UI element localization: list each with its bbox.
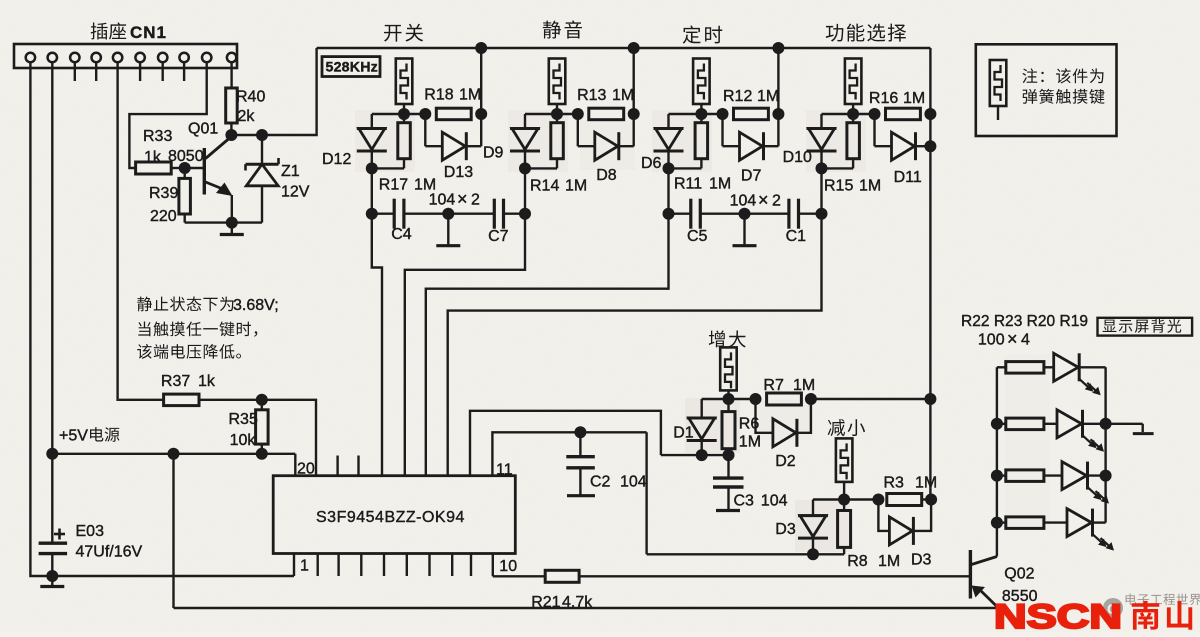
wire +5V to bottom rail <box>172 454 174 608</box>
wire sense timer to pin14 <box>426 214 669 476</box>
wire emitter ground link <box>185 217 262 229</box>
label C5 <box>687 228 708 245</box>
wire sense switch to pin16 <box>372 214 382 476</box>
svg-text:×: × <box>758 190 769 210</box>
wire LED right bus <box>1100 367 1112 522</box>
capacitor C7 <box>494 199 503 229</box>
connector CN1 <box>14 44 237 68</box>
wire LED left bus <box>991 367 1003 556</box>
label D3b <box>911 552 932 569</box>
diode D2 loop <box>756 399 811 447</box>
label pin1 <box>300 558 309 575</box>
label R7 1M <box>763 377 815 394</box>
label D11 <box>894 169 922 186</box>
label R12 1M <box>723 88 779 105</box>
svg-text:Q01: Q01 <box>188 121 218 138</box>
note key symbol <box>990 60 1007 120</box>
label R39 220 <box>149 185 178 225</box>
watermark logo circle <box>1103 598 1123 618</box>
svg-text:2k: 2k <box>238 108 256 125</box>
svg-text:3.68V;: 3.68V; <box>233 297 279 314</box>
label R13 1M <box>577 87 634 104</box>
touch key function module <box>807 48 937 174</box>
svg-text:1M: 1M <box>903 90 925 107</box>
label D12 <box>322 151 351 168</box>
svg-text:D6: D6 <box>641 155 662 172</box>
diode D3b loop <box>878 500 931 545</box>
svg-text:D13: D13 <box>444 164 473 181</box>
svg-text:1M: 1M <box>793 377 815 394</box>
svg-text:R7: R7 <box>763 377 784 394</box>
wire CN1 pin9 to R33 <box>129 62 206 168</box>
svg-text:104: 104 <box>429 192 456 209</box>
label 显示屏背光 <box>1103 319 1182 333</box>
svg-text:1M: 1M <box>612 87 634 104</box>
wire pin10 to R21 <box>492 554 494 577</box>
svg-text:C4: C4 <box>391 226 412 243</box>
diode D3 <box>798 500 828 561</box>
svg-text:×: × <box>1007 329 1018 349</box>
svg-text:D11: D11 <box>894 169 922 186</box>
svg-text:R33: R33 <box>143 128 172 145</box>
label D6 <box>641 155 662 172</box>
backlight box <box>1098 318 1193 336</box>
label S3F9454BZZ-OK94 <box>316 509 465 526</box>
note box <box>976 44 1117 136</box>
svg-text:10: 10 <box>499 558 517 575</box>
label +5V <box>59 427 119 444</box>
svg-text:R3: R3 <box>884 475 905 492</box>
wire R21 line <box>493 575 971 577</box>
led LED3 <box>1062 462 1109 504</box>
svg-text:1M: 1M <box>878 553 900 570</box>
led LED4 <box>1067 509 1114 551</box>
wire top bus <box>317 42 931 54</box>
svg-text:1M: 1M <box>459 87 481 104</box>
wire increase to pin12 <box>470 411 661 476</box>
label CN1 <box>91 22 167 42</box>
wire R37 to pin19 <box>262 400 316 476</box>
wire pin1 bottom link <box>31 554 294 577</box>
svg-text:C2: C2 <box>590 474 611 491</box>
svg-text:1k: 1k <box>144 149 162 166</box>
ground cap pair 2 <box>733 214 757 246</box>
wire CN1 pin2 to +5V rail <box>51 62 53 454</box>
ground C3 <box>716 506 740 511</box>
svg-text:528KHz: 528KHz <box>326 60 378 76</box>
resistor R6 <box>722 399 735 461</box>
wire bottom rail <box>174 607 997 609</box>
svg-text:104: 104 <box>730 193 757 210</box>
label R40 2k <box>236 89 265 126</box>
svg-text:D7: D7 <box>741 168 762 185</box>
label E03 <box>76 523 143 561</box>
diode D1 <box>687 399 717 461</box>
label 104x2 pair1 <box>429 189 480 209</box>
label 减小 <box>828 419 865 436</box>
label R16 1M <box>869 90 925 107</box>
label C7 <box>488 228 509 245</box>
resistor R20 <box>997 470 1062 482</box>
wire C2 to minus module <box>645 432 647 554</box>
wire switch sense down <box>371 168 373 213</box>
svg-text:D12: D12 <box>322 151 351 168</box>
label Q01 8050 <box>168 121 218 166</box>
svg-text:R22 R23 R20 R19: R22 R23 R20 R19 <box>961 313 1088 330</box>
label D3 <box>775 521 796 538</box>
capacitor C2 <box>566 432 595 490</box>
capacitor C5 <box>691 199 701 229</box>
svg-text:1M: 1M <box>709 176 731 193</box>
svg-text:R16: R16 <box>869 90 898 107</box>
transistor Q01 <box>185 137 233 223</box>
label 增大 <box>709 330 746 347</box>
scan shading <box>355 110 1050 552</box>
svg-text:D3: D3 <box>911 552 932 569</box>
capacitor C3 <box>713 455 744 505</box>
svg-text:Z1: Z1 <box>281 163 300 180</box>
wire decrease sense <box>647 553 845 555</box>
svg-text:R14: R14 <box>530 178 559 195</box>
capacitor C4 <box>394 199 404 229</box>
label R22 R23 R20 R19 <box>961 313 1088 330</box>
wire decrease node line <box>813 494 937 506</box>
wire mute sense down <box>524 168 526 213</box>
label D1 <box>673 425 694 442</box>
label R17 1M <box>379 177 436 194</box>
label Q02 8550 <box>1002 566 1038 606</box>
svg-text:104: 104 <box>620 474 647 491</box>
capacitor E03 <box>39 454 68 576</box>
wire collector to top bus <box>231 48 316 141</box>
label 功能选择 <box>826 24 906 42</box>
wire sense mute to pin15 <box>405 214 525 476</box>
label R18 1M <box>424 87 481 104</box>
svg-text:D10: D10 <box>783 149 812 166</box>
svg-text:104: 104 <box>761 493 788 510</box>
svg-text:R39: R39 <box>149 185 178 202</box>
svg-text:1M: 1M <box>859 178 881 195</box>
touch key decrease <box>836 438 853 499</box>
svg-text:D1: D1 <box>673 425 694 442</box>
svg-text:C3: C3 <box>734 493 755 510</box>
watermark gray text <box>1126 594 1200 606</box>
resistor R23 <box>997 418 1057 430</box>
svg-text:R37: R37 <box>161 373 190 390</box>
wire pin11 C2 line <box>492 426 646 475</box>
svg-text:NSCN: NSCN <box>994 598 1122 632</box>
freq box 528KHz <box>322 57 380 77</box>
wire increase sense <box>661 454 729 456</box>
node E03 ground <box>46 570 58 582</box>
svg-text:×: × <box>457 189 468 209</box>
svg-text:220: 220 <box>150 208 177 225</box>
resistor R37 <box>119 394 262 406</box>
svg-text:C5: C5 <box>687 228 708 245</box>
svg-text:1: 1 <box>300 558 309 575</box>
node R37 R35 <box>256 394 268 406</box>
svg-text:1k: 1k <box>198 373 216 390</box>
svg-text:D2: D2 <box>775 453 796 470</box>
svg-text:R11: R11 <box>674 176 702 193</box>
label R35 10k <box>229 411 258 449</box>
watermark NSCN <box>994 598 1192 636</box>
label R11 1M <box>674 176 731 193</box>
svg-text:10k: 10k <box>230 432 257 449</box>
wire timer sense down <box>667 168 669 213</box>
svg-text:100: 100 <box>978 332 1005 349</box>
svg-text:R13: R13 <box>577 87 606 104</box>
label C1 <box>786 228 807 245</box>
label C4 <box>391 226 412 243</box>
svg-text:C1: C1 <box>786 228 807 245</box>
label pin10 <box>499 558 517 575</box>
ground cap pair 1 <box>436 214 460 246</box>
svg-text:12V: 12V <box>281 184 310 201</box>
resistor R35 <box>256 400 269 454</box>
svg-text:20: 20 <box>297 461 315 478</box>
wire cap line 2 <box>663 208 828 220</box>
svg-text:1M: 1M <box>565 178 587 195</box>
ground C2 <box>567 490 595 496</box>
svg-text:R35: R35 <box>229 411 258 428</box>
label D13 <box>444 164 473 181</box>
svg-text:1M: 1M <box>739 434 761 451</box>
label D2 <box>775 453 796 470</box>
node Q01 base <box>179 162 191 174</box>
ground LED <box>1133 424 1154 434</box>
label Z1 12V <box>281 163 310 201</box>
svg-text:E03: E03 <box>76 523 105 540</box>
label pin11 <box>496 462 513 479</box>
capacitor C1 <box>789 199 799 229</box>
svg-text:R40: R40 <box>236 89 265 106</box>
resistor R33 <box>136 162 185 174</box>
svg-text:R12: R12 <box>723 88 752 105</box>
note text <box>1022 68 1104 104</box>
svg-text:D9: D9 <box>483 145 504 162</box>
svg-text:11: 11 <box>496 462 513 479</box>
label D7 <box>741 168 762 185</box>
svg-text:R17: R17 <box>379 177 408 194</box>
wire CN1 pin1 down-left side <box>29 62 32 576</box>
label D8 <box>596 167 617 184</box>
zener Z1 <box>246 135 279 223</box>
touch key increase <box>720 347 737 399</box>
resistor R19 <box>997 517 1067 529</box>
resistor R3 <box>887 494 922 506</box>
label R8 1M <box>847 553 900 570</box>
wire +5V rail <box>46 448 295 460</box>
svg-text:47Uf/16V: 47Uf/16V <box>76 544 143 561</box>
touch key mute module <box>510 48 640 174</box>
node Q01 collector <box>225 129 237 141</box>
svg-text:S3F9454BZZ-OK94: S3F9454BZZ-OK94 <box>316 509 465 526</box>
svg-text:R6: R6 <box>739 416 760 433</box>
resistor R7 <box>767 393 802 405</box>
svg-text:CN1: CN1 <box>130 23 167 42</box>
svg-text:+5V: +5V <box>59 428 88 445</box>
label pin20 <box>297 461 315 478</box>
wire cap line 1 <box>366 208 531 220</box>
transistor Q02 <box>970 550 997 608</box>
svg-text:1M: 1M <box>757 88 779 105</box>
IC bottom stubs <box>318 554 471 577</box>
label C3 104 <box>734 493 788 510</box>
label D10 <box>783 149 812 166</box>
label R33 1k <box>143 128 172 166</box>
svg-text:R18: R18 <box>424 87 453 104</box>
svg-text:C7: C7 <box>488 228 509 245</box>
label R37 1k <box>161 373 216 390</box>
label R21 4.7k <box>531 594 593 611</box>
label 100x4 <box>978 329 1030 349</box>
wire right bus <box>924 140 936 499</box>
resistor R39 <box>179 168 191 223</box>
label 静音 <box>543 20 582 38</box>
resistor R22 <box>997 362 1054 374</box>
wire CN1 pin5 down to R37 <box>118 62 119 400</box>
svg-text:R15: R15 <box>824 178 853 195</box>
text block touch note <box>137 296 279 358</box>
label 开关 <box>384 24 423 42</box>
touch key switch module <box>357 48 487 174</box>
label R14 1M <box>530 178 587 195</box>
wire increase node line <box>702 393 931 405</box>
label C2 104 <box>590 474 647 491</box>
resistor R21 <box>545 570 579 582</box>
CN1 pin stubs <box>75 62 184 81</box>
resistor R40 <box>226 88 238 135</box>
svg-text:Q02: Q02 <box>1004 566 1034 583</box>
led LED1 <box>1054 353 1106 395</box>
wire LED ground link <box>1106 423 1143 425</box>
label D9 <box>483 145 504 162</box>
svg-text:D8: D8 <box>596 167 617 184</box>
label R3 1M <box>884 475 938 492</box>
resistor R8 <box>838 500 851 555</box>
wire function sense down <box>820 168 822 213</box>
ground E03 <box>40 576 64 587</box>
IC top stubs <box>338 456 359 476</box>
label R6 1M <box>739 416 761 451</box>
svg-text:4: 4 <box>1021 332 1030 349</box>
svg-text:2: 2 <box>471 192 480 209</box>
label 定时 <box>683 25 723 43</box>
svg-text:2: 2 <box>772 193 781 210</box>
svg-text:D3: D3 <box>775 521 796 538</box>
label 104x2 pair2 <box>730 190 781 210</box>
wire sense function to pin13 <box>448 214 822 476</box>
wire rail to pin20 <box>294 454 296 476</box>
led LED2 <box>1057 410 1106 452</box>
svg-text:1M: 1M <box>915 475 937 492</box>
label R15 1M <box>824 178 881 195</box>
touch key timer module <box>654 48 785 174</box>
svg-text:R8: R8 <box>847 553 868 570</box>
IC U1 S3F9454 <box>273 476 515 554</box>
wire CN1 pin10 to R40 <box>230 62 232 88</box>
ground Q01 <box>220 223 244 235</box>
